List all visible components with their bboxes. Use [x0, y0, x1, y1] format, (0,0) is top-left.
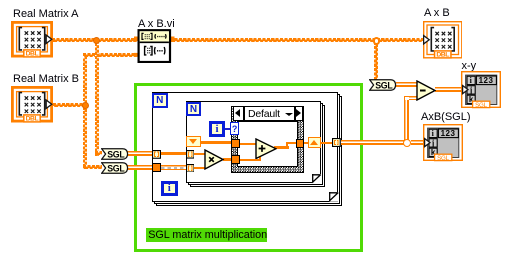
svg-text:j: j: [469, 86, 473, 95]
svg-text:123: 123: [440, 129, 455, 138]
svg-text:SGL: SGL: [375, 80, 393, 90]
svg-text:SGL: SGL: [475, 102, 488, 109]
svg-text:DBL: DBL: [26, 115, 39, 122]
svg-text:SGL: SGL: [107, 163, 125, 173]
svg-text:SGL: SGL: [437, 155, 450, 162]
svg-text:DBL: DBL: [26, 50, 39, 57]
svg-text:SGL: SGL: [107, 149, 125, 159]
svg-text:123: 123: [479, 76, 494, 85]
svg-text:j: j: [430, 139, 434, 148]
svg-text:DBL: DBL: [436, 51, 449, 58]
